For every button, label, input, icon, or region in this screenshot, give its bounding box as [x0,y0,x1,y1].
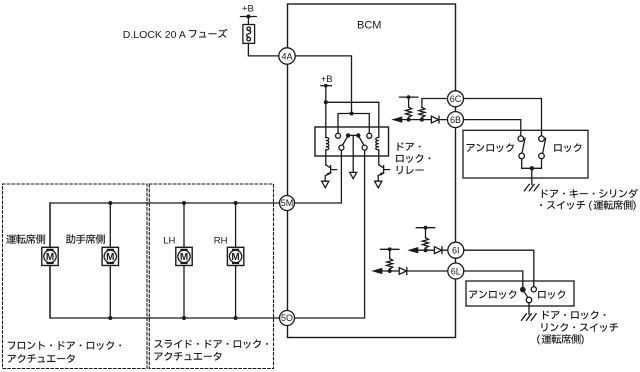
wire +B to fuse [247,17,249,25]
diode D1 (6B) [431,116,438,123]
relay common down wire [352,135,354,172]
junction node [108,201,112,205]
chassis ground (link switch) [522,314,537,321]
lock label (link) [538,290,565,299]
+B rail (R4) [381,248,399,250]
connector 6C [448,91,464,107]
wire motor M2 passenger front [109,203,111,318]
ground arrow (relay common) [350,172,357,178]
relay coil R [376,137,379,149]
+B rail bar (relay) [321,85,332,87]
relay lower contacts [339,145,344,150]
relay common dots [346,133,350,137]
slide door lock actuator box (dashed) [149,184,273,369]
ground arrow Q2 [375,181,382,188]
lock contact (key) [539,136,545,142]
junction node [407,118,411,122]
slide actuator caption [154,340,268,349]
fuse D.LOCK 20A [243,25,255,44]
resistor R1 (6C pull) [419,107,425,117]
svg-text:+B: +B [321,74,333,85]
unlock label (link) [469,290,516,299]
lock contact (link) [531,287,536,292]
+B rail (R2) [399,96,417,98]
switch blade (link) [524,291,528,297]
driver side label [6,234,45,244]
resistor R3 (6I pull) [425,248,427,250]
resistor R4 (6L pull) [389,269,391,271]
front actuator caption [8,341,121,350]
relay box [315,127,389,156]
svg-text:6C: 6C [450,94,462,104]
+B rail bar [241,16,257,18]
lock label (key) [554,143,581,152]
svg-text:D.LOCK 20 A: D.LOCK 20 A [123,29,186,41]
connector 6B [448,112,464,128]
wire motor M3 slide LH [183,203,185,318]
resistor R2 (6B pull) [408,117,410,119]
motor M1 driver front [42,247,58,265]
wire fuse to 4A [248,43,278,56]
svg-text:M: M [46,252,54,263]
ground arrow Q1 [322,181,329,188]
svg-text:6I: 6I [452,246,460,256]
unlock label (key) [467,143,514,152]
diode D3 (6L) [399,268,406,275]
connector 6I [448,242,464,258]
key cylinder switch box [463,130,588,178]
junction node [182,201,186,205]
svg-text:LH: LH [163,236,175,247]
transistor Q1 [325,150,327,165]
passenger side label [66,234,105,244]
connector 5M [280,196,295,211]
arrow to interior (6I line) [407,247,418,253]
lower contact (lock) [539,153,545,159]
connector 5O [280,311,295,326]
link switch caption [543,311,606,320]
motor M3 slide LH [176,247,192,265]
wire to ground (link) [528,303,530,315]
svg-text:BCM: BCM [357,20,381,32]
common contact (filled) [520,287,526,293]
switch blade (unlock) [522,138,525,153]
relay blades [342,136,347,145]
connector 4A [279,48,295,64]
BCM box [288,4,456,338]
wire 6L internal [380,270,449,272]
transistor Q2 [378,150,380,165]
connector 6L [448,263,464,279]
wire +B down to coils [325,86,327,138]
relay label [398,142,421,151]
wire 6C to lock switch [464,99,542,136]
junction node [182,316,186,320]
wire motor M1 driver front [49,203,51,318]
junction node [388,269,392,273]
relay contact circles [336,133,341,138]
junction node [420,118,424,122]
wire to ground [531,168,533,184]
+B rail (R3) [416,227,434,229]
diode D2 (6I) [434,247,441,254]
wire 6C internal [422,99,447,108]
wire relay to 5O [295,150,365,318]
svg-text:4A: 4A [281,51,292,61]
svg-text:M: M [106,252,114,263]
wire 6L to common contact [464,271,523,287]
motor M4 slide RH [227,247,243,265]
arrow to interior (6B line) [391,116,402,122]
lower contact (unlock) [519,153,525,159]
common join wires [522,159,542,169]
wire 6I to lock contact [464,250,534,287]
junction node [324,100,328,104]
unlock contact (key) [518,136,524,142]
svg-text:M: M [180,252,188,263]
relay coil L [326,137,329,149]
svg-text:+B: +B [242,4,254,15]
motor M2 passenger front [102,247,118,265]
front door lock actuator box (dashed) [3,184,148,369]
svg-text:6B: 6B [450,115,461,125]
svg-text:RH: RH [214,236,228,247]
contact feed bar [338,114,369,134]
wire to right coil [326,102,379,137]
wire 6B internal [400,119,447,121]
junction node [234,316,238,320]
svg-text:6L: 6L [451,266,461,276]
lower contact (link) [526,297,532,303]
svg-text:5M: 5M [281,198,294,208]
junction node [234,201,238,205]
key cylinder caption [542,189,638,198]
chassis ground (key switch) [524,184,539,191]
junction node [424,248,428,252]
wire 6B to unlock switch [464,120,521,136]
junction node [350,112,354,116]
bus wires: 5M top bus and 5O bottom bus [50,203,279,318]
svg-text:M: M [231,252,239,263]
wire motor M4 slide RH [235,203,237,318]
switch blade (lock) [543,138,546,153]
arrow to interior (6L line) [371,268,382,274]
wire relay to 5M [295,150,342,203]
link switch box [466,281,574,306]
junction node [108,316,112,320]
svg-text:5O: 5O [281,313,293,323]
wire 4A to relay contacts [295,56,351,114]
wire 6I internal [416,249,449,251]
